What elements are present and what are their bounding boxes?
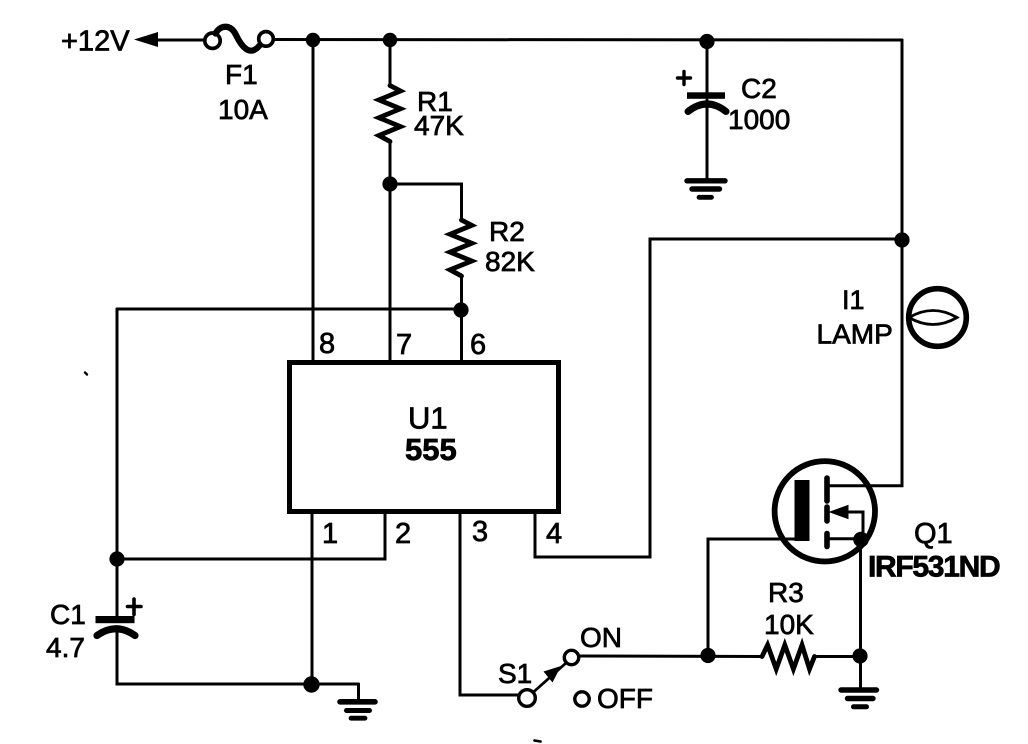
- stray scan mark left: [85, 373, 87, 375]
- svg-text:ON: ON: [580, 622, 622, 653]
- node junction gate R3: [700, 648, 715, 663]
- svg-text:555: 555: [405, 432, 457, 467]
- svg-text:1: 1: [322, 518, 338, 550]
- +12V arrow: [134, 32, 158, 47]
- ground symbol under C2: [687, 181, 725, 198]
- svg-text:6: 6: [470, 329, 486, 361]
- svg-text:R3: R3: [768, 577, 804, 608]
- svg-text:S1: S1: [498, 658, 532, 689]
- svg-text:C1: C1: [50, 599, 86, 630]
- svg-text:U1: U1: [408, 401, 448, 436]
- node junction source: [853, 532, 869, 548]
- stray scan mark bottom: [535, 741, 541, 742]
- node junction left column: [109, 551, 124, 566]
- wire gate lead: [708, 539, 796, 656]
- ground symbol bottom middle: [340, 684, 375, 718]
- svg-text:F1: F1: [225, 59, 258, 90]
- node junction R1 bottom: [382, 176, 397, 191]
- svg-text:10K: 10K: [764, 609, 814, 640]
- wire +12V rail left: [152, 39, 206, 42]
- wire pin 8 column: [312, 40, 315, 362]
- ground symbol under Q1 source: [841, 690, 877, 707]
- svg-text:1000: 1000: [728, 104, 790, 135]
- resistor R3: [762, 645, 815, 669]
- capacitor C2: [678, 42, 727, 112]
- wire +12V rail right: [273, 38, 902, 42]
- node junction C2 rail: [699, 34, 714, 49]
- switch S1: [519, 650, 590, 706]
- svg-text:2: 2: [395, 518, 411, 550]
- wire trigger-threshold link: [117, 308, 461, 311]
- svg-text:Q1: Q1: [914, 518, 953, 550]
- svg-text:4: 4: [546, 518, 562, 550]
- wire right side drop to drain: [827, 40, 902, 486]
- svg-text:4.7: 4.7: [46, 632, 85, 663]
- IC U1 box: [290, 363, 559, 512]
- wire pin2 link: [117, 513, 385, 559]
- wire C2 to ground: [706, 100, 709, 179]
- svg-text:3: 3: [472, 516, 488, 548]
- svg-text:IRF531ND: IRF531ND: [868, 551, 1000, 584]
- svg-text:C2: C2: [741, 73, 777, 104]
- svg-text:LAMP: LAMP: [817, 319, 893, 350]
- lamp I1: [909, 289, 967, 347]
- transistor Q1: [775, 461, 875, 561]
- fuse F1: [205, 27, 274, 51]
- svg-text:I1: I1: [842, 285, 865, 315]
- svg-text:7: 7: [396, 329, 412, 361]
- wire R1 junction to R2 top: [390, 184, 462, 221]
- svg-text:+12V: +12V: [61, 26, 130, 58]
- wire reset branch: [535, 239, 902, 557]
- node junction R3 source: [852, 648, 867, 663]
- resistor R1: [379, 86, 401, 142]
- node junction lamp branch: [894, 232, 909, 247]
- wire switch to R3: [579, 655, 763, 659]
- wire rail to R1: [389, 40, 392, 86]
- wire R1 to pin 7: [389, 141, 392, 362]
- node junction pin8 rail: [306, 33, 320, 47]
- svg-text:47K: 47K: [414, 110, 464, 141]
- wire left column down to C1: [116, 309, 119, 617]
- wire pin 3 to switch: [460, 513, 518, 695]
- wire C1 bottom to ground rail: [117, 629, 359, 684]
- node junction pin7 rail: [383, 33, 397, 47]
- capacitor C1: [96, 599, 142, 636]
- svg-text:10A: 10A: [218, 94, 268, 125]
- wire R3 to source column: [815, 655, 861, 658]
- svg-text:OFF: OFF: [597, 683, 653, 714]
- node junction pin1 ground: [303, 676, 319, 692]
- svg-text:R2: R2: [489, 216, 525, 247]
- resistor R2: [450, 220, 472, 276]
- wire source to ground: [859, 539, 862, 688]
- svg-text:82K: 82K: [485, 246, 535, 277]
- wire R2 to pin 6: [460, 277, 463, 363]
- wire pin 1: [311, 513, 314, 684]
- svg-text:8: 8: [319, 328, 335, 360]
- node junction pin6: [453, 302, 468, 317]
